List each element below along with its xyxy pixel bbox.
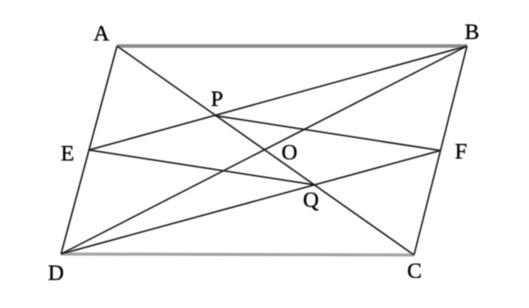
diagonal DB bbox=[61, 46, 467, 254]
svg-text:O: O bbox=[282, 140, 298, 165]
side BC (right) bbox=[414, 46, 467, 255]
svg-text:B: B bbox=[465, 19, 480, 44]
diagonal AC bbox=[117, 46, 414, 255]
side AB (top, gray thick) bbox=[117, 44, 467, 47]
svg-text:C: C bbox=[407, 258, 422, 283]
svg-text:P: P bbox=[211, 86, 223, 111]
svg-text:F: F bbox=[455, 139, 467, 164]
side DC (bottom, gray thick) bbox=[61, 254, 414, 255]
line DF bbox=[61, 151, 441, 255]
svg-text:D: D bbox=[48, 260, 64, 285]
segment PF bbox=[215, 116, 441, 151]
svg-text:E: E bbox=[61, 141, 74, 166]
segment EQ bbox=[89, 150, 314, 185]
svg-text:Q: Q bbox=[303, 187, 319, 212]
side AD (left) bbox=[61, 46, 117, 254]
svg-text:A: A bbox=[94, 21, 110, 46]
line EB bbox=[89, 46, 467, 150]
